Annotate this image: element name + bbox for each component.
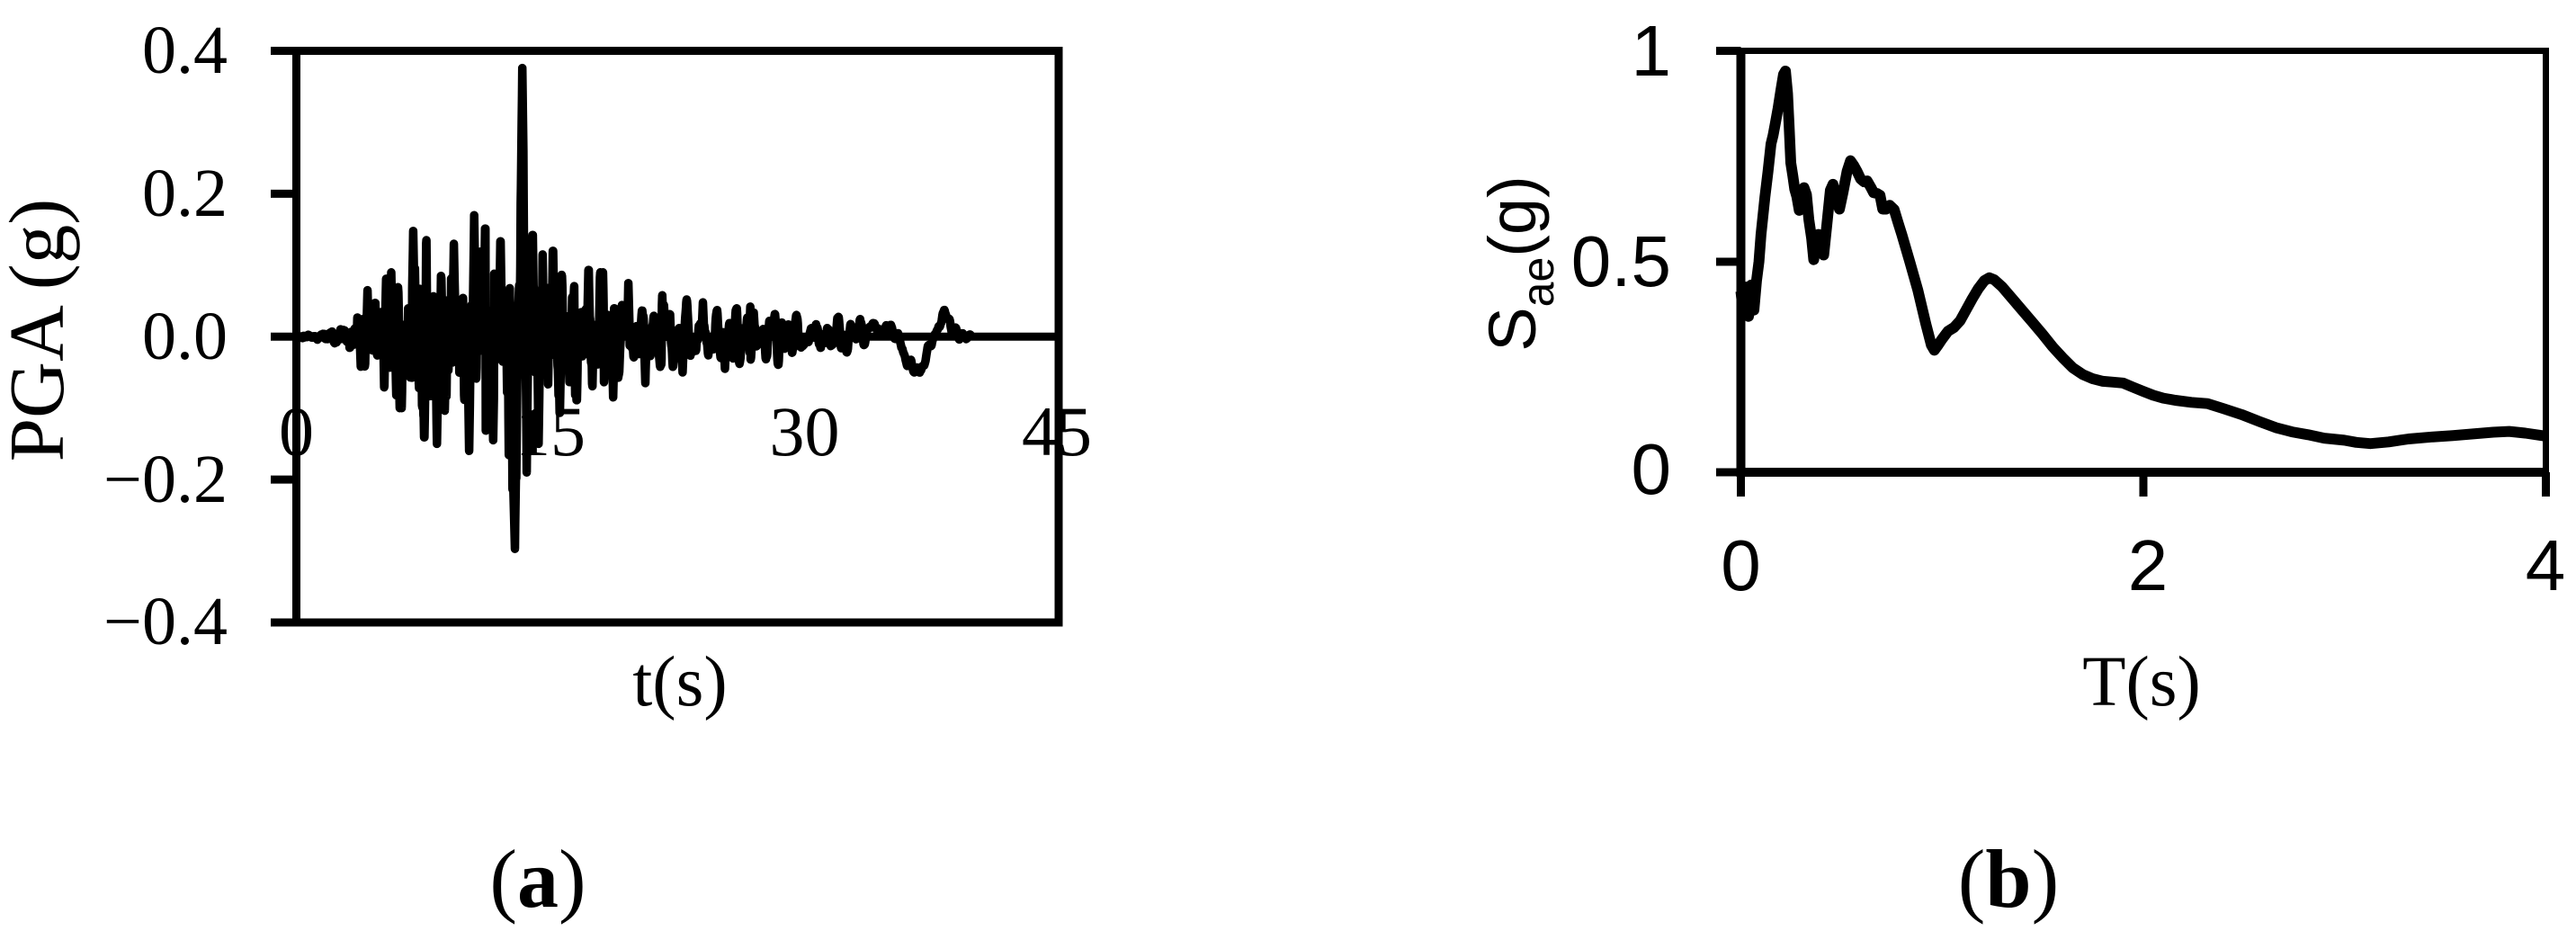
svg-text:0.0: 0.0 xyxy=(142,299,228,374)
panel (a) y-axis ticks xyxy=(271,51,297,623)
panel (b) x-axis line xyxy=(1737,468,2549,477)
panel (b) y-axis line xyxy=(1737,48,1746,477)
panel (a) x-axis zero line xyxy=(292,333,1062,341)
svg-text:0: 0 xyxy=(1632,429,1672,509)
panel (b) top border xyxy=(1737,48,2549,54)
svg-text:1: 1 xyxy=(1632,11,1672,91)
svg-text:4: 4 xyxy=(2526,525,2566,605)
svg-text:30: 30 xyxy=(770,392,840,470)
svg-text:0.4: 0.4 xyxy=(142,13,228,88)
svg-text:−0.2: −0.2 xyxy=(103,442,228,517)
svg-text:45: 45 xyxy=(1022,392,1092,470)
svg-text:0: 0 xyxy=(1721,525,1761,605)
panel (b) response spectrum curve xyxy=(1741,71,2546,443)
panel (a) accelerogram waveform xyxy=(297,68,971,550)
panel (b) y tick labels xyxy=(1571,11,1671,509)
svg-text:15: 15 xyxy=(515,392,586,470)
svg-text:2: 2 xyxy=(2128,525,2169,605)
svg-text:PGA (g): PGA (g) xyxy=(0,199,80,461)
svg-text:Sae(g): Sae(g) xyxy=(1475,175,1563,351)
svg-text:−0.4: −0.4 xyxy=(103,584,228,659)
svg-text:0.2: 0.2 xyxy=(142,156,228,231)
svg-text:(a): (a) xyxy=(489,833,586,925)
svg-text:(b): (b) xyxy=(1958,833,2059,925)
panel (a) y tick labels xyxy=(103,13,228,659)
panel (b) x-axis ticks xyxy=(1741,472,2546,497)
svg-text:0: 0 xyxy=(279,392,314,470)
panel (b) right border xyxy=(2543,48,2549,477)
panel (a) plot frame xyxy=(297,51,1060,623)
panel (a) x tick labels xyxy=(279,392,1092,470)
panel (b) y-axis ticks xyxy=(1716,51,1741,473)
svg-text:T(s): T(s) xyxy=(2082,643,2201,721)
svg-text:t(s): t(s) xyxy=(632,643,727,721)
svg-text:0.5: 0.5 xyxy=(1571,221,1671,301)
panel (b) x tick labels xyxy=(1721,525,2565,605)
